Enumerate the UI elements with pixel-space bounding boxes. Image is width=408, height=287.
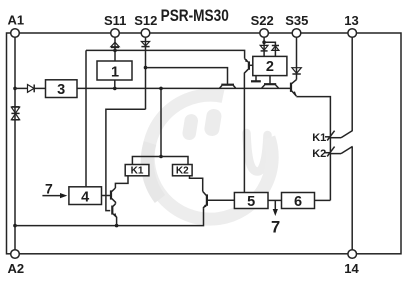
contact K2 blade: [330, 146, 352, 153]
transistor Q3 (drives K2): [203, 191, 207, 208]
wire K coil feed vertical: [160, 88, 162, 156]
diode below S11: [111, 42, 119, 47]
watermark logo U clamp: [247, 133, 268, 172]
wire top supply horizontal to Q5: [86, 50, 245, 58]
wire S22 down: [263, 37, 265, 56]
wire S12 line jog to Q2 base: [106, 109, 146, 210]
contact K1 blade: [330, 131, 352, 138]
wire box5 base line to Q3: [208, 199, 235, 201]
wire supply vertical to box 4: [85, 50, 87, 188]
wire box6 right to contact line: [315, 199, 331, 201]
input arrow 7 into box 4: [42, 193, 67, 198]
box 1: [97, 61, 132, 80]
transistor Q4 (monitor output): [291, 80, 330, 201]
svg-text:2: 2: [266, 59, 274, 75]
wire K2 coil to Q3 collector: [190, 176, 203, 192]
wire branch A1 to diode: [15, 87, 28, 89]
node junction A2 rail to ground rail: [13, 224, 17, 228]
wire contact to terminal 14: [351, 147, 353, 250]
svg-text:5: 5: [247, 194, 255, 210]
terminal S35: [292, 29, 301, 38]
terminal 13: [348, 29, 357, 38]
watermark logo eye bar right: [203, 108, 222, 137]
contact K1 actuator tick: [327, 131, 334, 141]
box 6: [282, 193, 315, 209]
box 5: [234, 193, 268, 209]
node junction ground rail / Q2 emitter: [115, 224, 119, 228]
box 3: [46, 80, 78, 98]
diode S22 right (pointing up): [272, 46, 279, 51]
node junction S12 branch: [144, 66, 148, 70]
node junction S11 line on top wire: [113, 49, 117, 53]
relay coil K2: [173, 165, 193, 176]
svg-text:S12: S12: [134, 13, 157, 28]
svg-text:13: 13: [344, 13, 358, 28]
node junction S22 split: [262, 40, 266, 44]
wire S12 line down: [145, 37, 147, 109]
diode below S12: [141, 42, 149, 47]
label K1 with dash: [312, 132, 329, 144]
svg-text:K2: K2: [176, 166, 189, 177]
transistor T5 (rotated, base from S12 branch): [220, 85, 236, 88]
wire box5 to box6: [268, 199, 282, 201]
svg-text:7: 7: [271, 219, 280, 237]
svg-text:S22: S22: [251, 13, 274, 28]
diode series before box 3: [28, 85, 46, 93]
wire S22 branch right: [264, 42, 275, 56]
node junction K coil split: [159, 155, 163, 159]
svg-text:7: 7: [45, 180, 53, 196]
watermark logo eye bar left: [182, 113, 199, 141]
wire K1 coil to Q1 collector: [115, 176, 128, 188]
box 2: [253, 56, 287, 75]
svg-text:14: 14: [344, 261, 359, 276]
terminal S12: [141, 29, 150, 38]
diode below S35 (pointing down): [292, 68, 301, 74]
wire S35 down to diode: [296, 37, 298, 79]
svg-text:K1: K1: [312, 132, 326, 144]
svg-text:K2: K2: [312, 148, 326, 160]
relay coil K1: [125, 165, 149, 176]
output arrow 7 below: [273, 200, 278, 216]
wire ground rail horizontal: [15, 208, 204, 225]
svg-text:3: 3: [57, 82, 65, 98]
wire box 1 bottom stub: [114, 80, 116, 88]
svg-text:4: 4: [81, 189, 89, 205]
watermark logo ring arc: [148, 95, 272, 219]
terminal A1: [11, 29, 20, 38]
diode S22 left (pointing down): [260, 45, 268, 51]
wire S12 branch to transistor T5 gate: [146, 68, 228, 84]
svg-text:S35: S35: [285, 13, 308, 28]
node junction under box 1: [113, 87, 117, 91]
svg-text:A2: A2: [7, 261, 24, 276]
svg-text:S11: S11: [104, 13, 126, 28]
wire terminal 13 down: [351, 37, 353, 131]
suppressor diode (bidirectional) on A1 rail: [11, 107, 19, 120]
wire A1 rail vertical: [14, 33, 16, 254]
transistor Q1 (upper of darlington): [102, 188, 116, 204]
transistor Q5 (pnp at top): [244, 59, 252, 193]
transistor T6 (rotated, base from box 2): [262, 76, 279, 88]
contact K2 actuator tick: [327, 147, 334, 157]
svg-text:6: 6: [294, 194, 302, 210]
wire S11 to box 1: [114, 37, 116, 61]
terminal 14: [348, 250, 357, 259]
svg-text:1: 1: [111, 65, 119, 81]
transistor Q2 (lower of darlington): [112, 204, 117, 226]
svg-text:K1: K1: [131, 166, 144, 177]
capacitor gate under box 2: [251, 76, 261, 82]
terminal S11: [111, 29, 120, 38]
box 4: [69, 187, 102, 205]
svg-text:PSR-MS30: PSR-MS30: [161, 6, 229, 25]
node junction A1 rail to box3 branch: [13, 87, 17, 91]
label K2 with dash: [312, 148, 329, 160]
wire K coil split horizontal: [132, 157, 188, 165]
wire long supply line from box 3 to Q4 base: [77, 87, 290, 89]
terminal S22: [260, 29, 269, 38]
node junction to K coil feed: [159, 87, 163, 91]
outer border frame: [7, 33, 402, 254]
svg-text:A1: A1: [7, 12, 24, 27]
terminal A2: [11, 250, 20, 259]
